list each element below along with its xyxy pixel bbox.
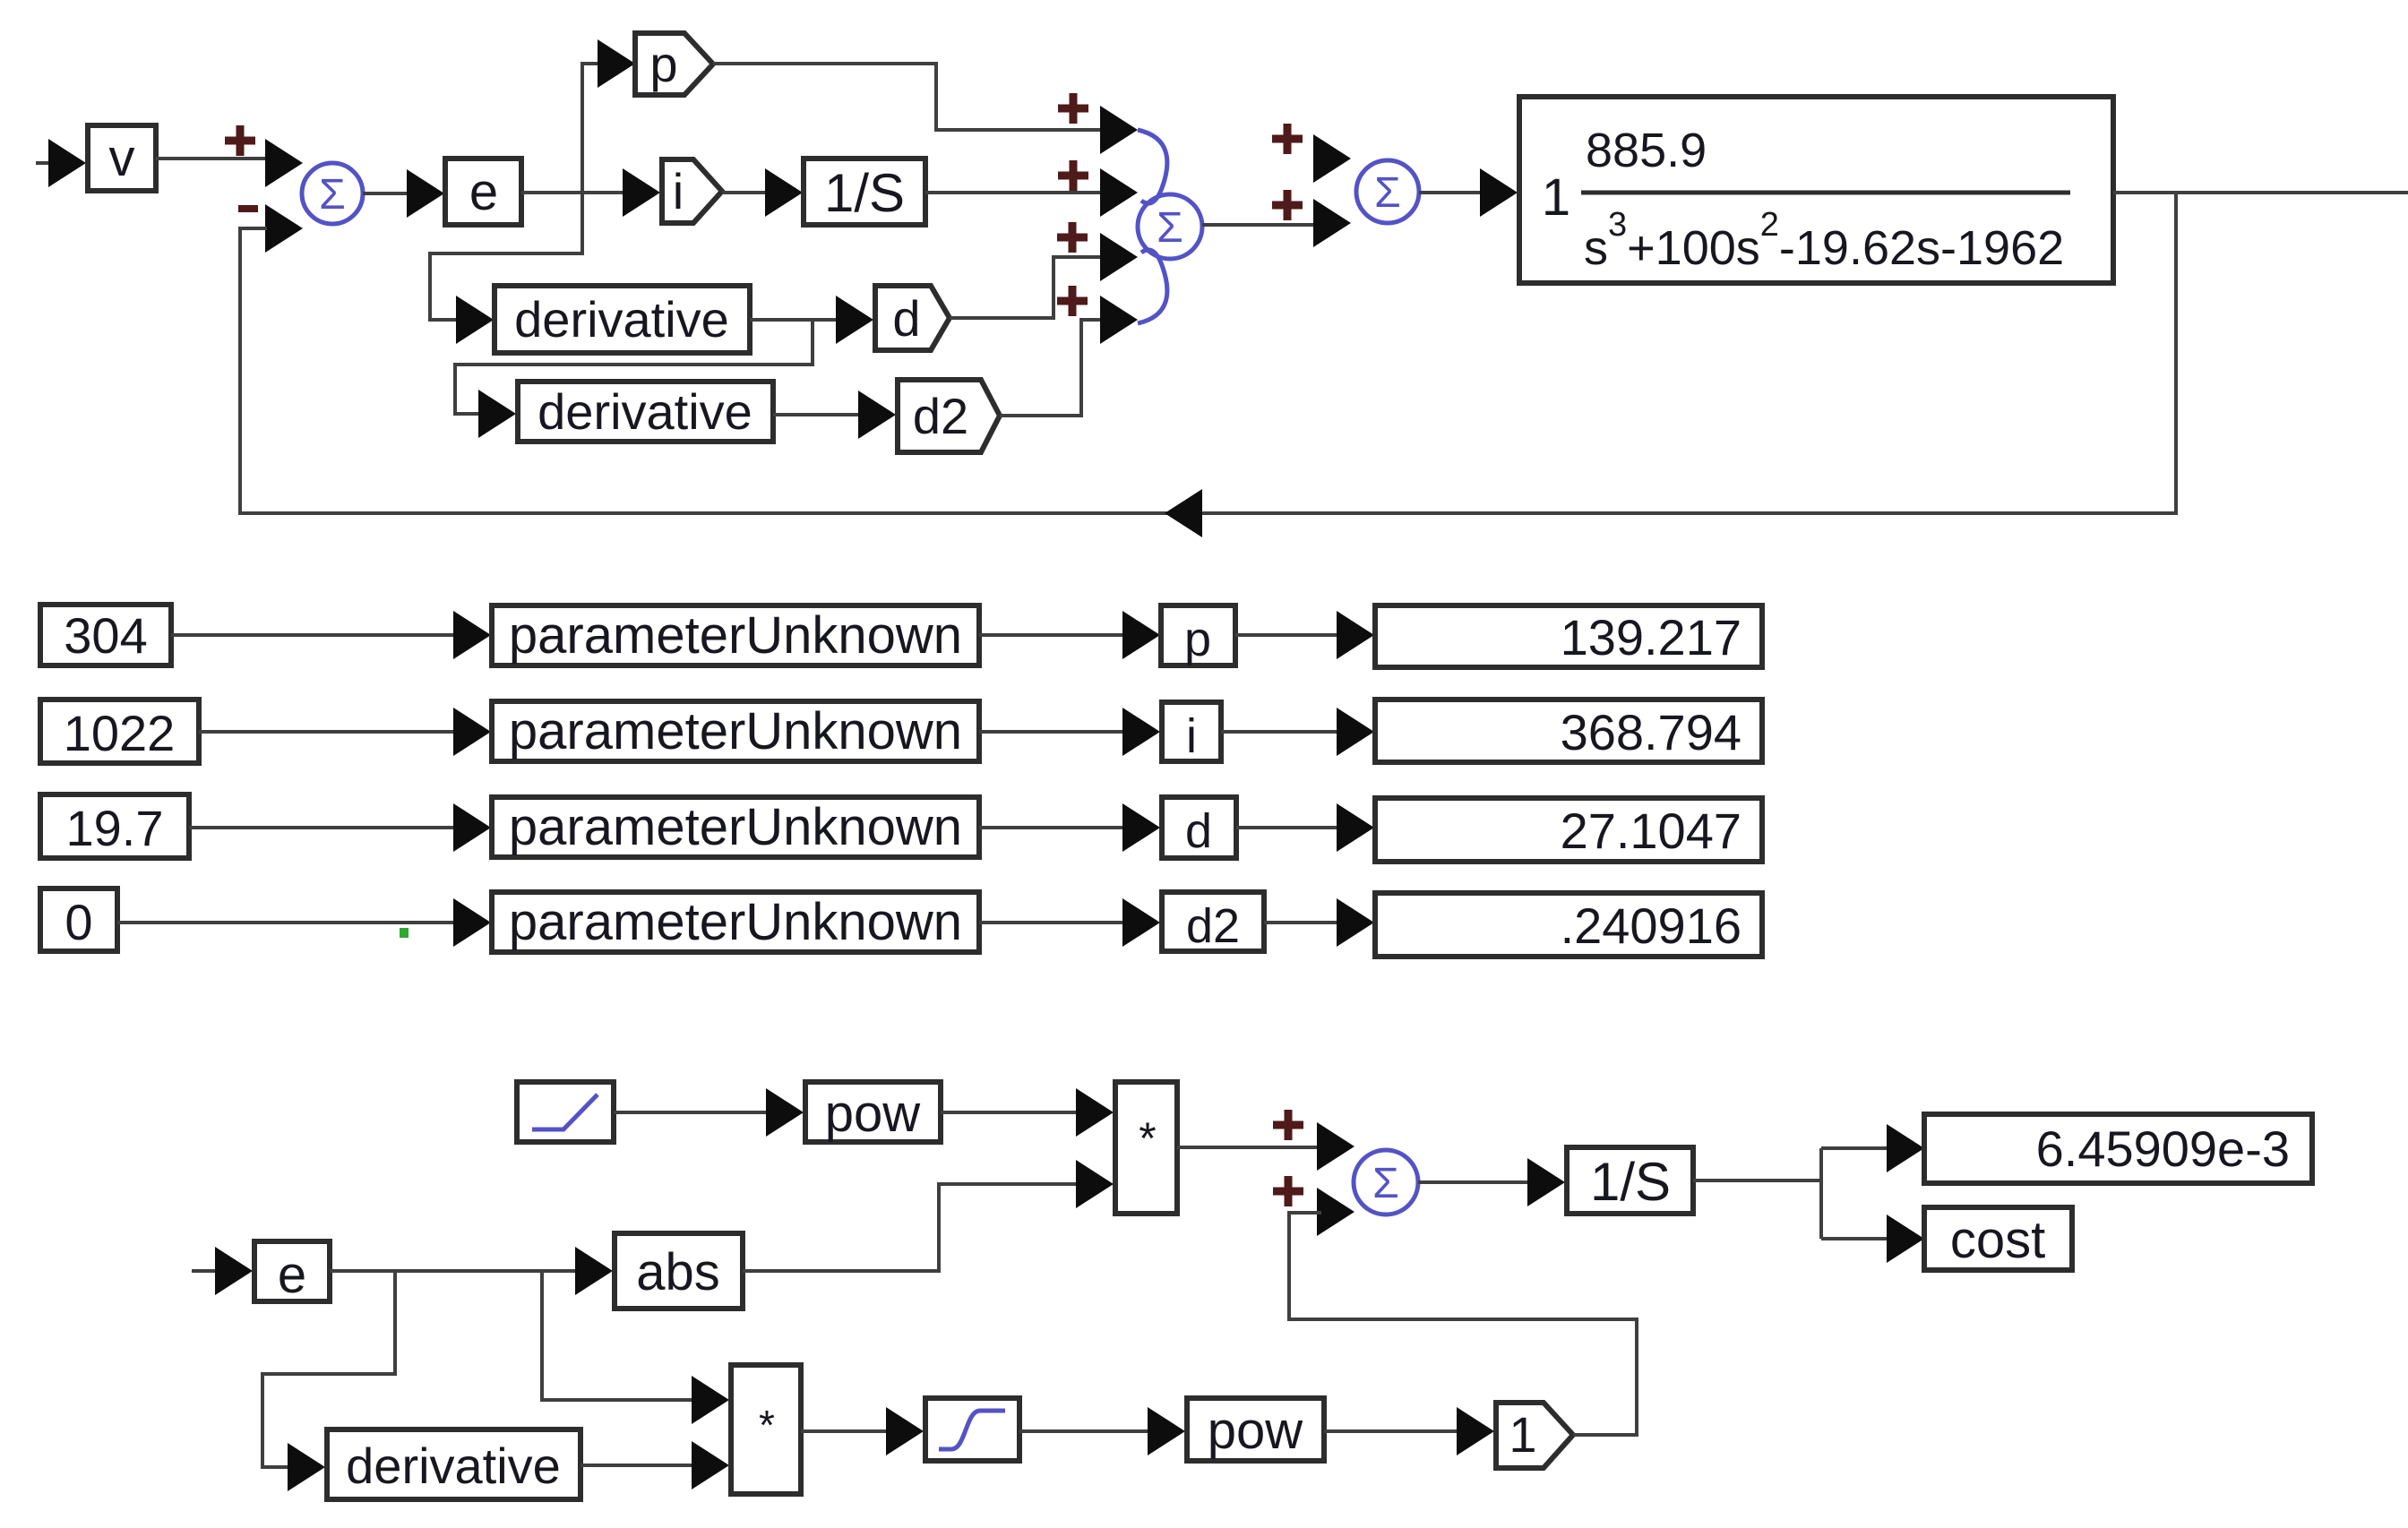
arrow big sum input 1 [1100, 106, 1138, 154]
wire: 19.7 to parameterUnknown [189, 826, 457, 829]
summation big sum brace [1138, 130, 1167, 323]
block parameterUnknown 1 [492, 605, 979, 665]
block pow (second) [1187, 1398, 1324, 1461]
arrow into d [836, 296, 873, 344]
block parameterUnknown 2 [492, 701, 979, 761]
svg-text:parameterUnknown: parameterUnknown [509, 702, 962, 760]
arrow into limiter [886, 1407, 924, 1455]
block derivative (second) [518, 382, 773, 442]
wire: i to display 368.794 [1221, 730, 1340, 734]
arrow into parameterUnknown 2 [453, 708, 491, 756]
block ramp source [517, 1082, 614, 1142]
wire: pointer 1 loop up to sum3 bottom input [1289, 1213, 1637, 1435]
svg-text:e: e [469, 163, 498, 221]
wire: 304 to parameterUnknown [171, 633, 457, 637]
arrow big sum input 2 [1100, 168, 1138, 217]
arrow sum3 bottom input [1317, 1188, 1354, 1236]
wire: feedback down and left [240, 193, 2176, 513]
block constant 1022 [40, 700, 199, 763]
block constant 304 [40, 605, 171, 665]
block constant 19.7 [40, 794, 189, 858]
wire: multiplier to sum3 [1177, 1146, 1320, 1149]
green mark on wire [400, 928, 408, 938]
wire: sum2 to transfer function [1419, 191, 1483, 194]
display 368.794 [1375, 700, 1762, 762]
arrow into 368.794 [1337, 708, 1374, 756]
svg-text:*: * [1139, 1113, 1156, 1163]
wire: branch down from e wire to derivative [430, 193, 582, 320]
svg-text:*: * [759, 1402, 775, 1448]
arrow into sum1 + input [265, 139, 303, 187]
wire: derivative to multiplier2 bottom [580, 1464, 695, 1467]
svg-text:19.7: 19.7 [66, 800, 164, 856]
wire: limiter to pow2 [1019, 1429, 1149, 1433]
svg-text:p: p [1184, 613, 1211, 666]
wire: e to abs [330, 1269, 577, 1273]
pointer d [875, 286, 950, 350]
block constant 0 [40, 888, 117, 951]
svg-text:i: i [1186, 709, 1197, 763]
arrow into 139.217 [1337, 611, 1374, 659]
pointer 1 [1496, 1403, 1573, 1468]
svg-text:368.794: 368.794 [1561, 704, 1741, 760]
block parameterUnknown 3 [492, 797, 979, 857]
block p (row1) [1161, 605, 1235, 666]
arrow into parameterUnknown 4 [453, 898, 491, 947]
svg-text:parameterUnknown: parameterUnknown [509, 893, 962, 951]
svg-text:Σ: Σ [319, 171, 346, 219]
svg-text:139.217: 139.217 [1561, 609, 1741, 665]
svg-text:304: 304 [64, 607, 147, 664]
arrow into e [407, 169, 444, 218]
svg-text:derivative: derivative [346, 1438, 561, 1494]
svg-text:Σ: Σ [1372, 1160, 1399, 1207]
wire: v to sum1 [156, 157, 265, 160]
arrow into d2 [858, 391, 896, 439]
wire: transfer function output to right edge [2113, 191, 2408, 194]
wire: d2 to display .240916 [1264, 921, 1340, 924]
pointer p [635, 33, 713, 95]
wire: 1/S output split [1693, 1148, 1890, 1239]
wire: derivative to d [750, 318, 839, 322]
svg-text:d2: d2 [1186, 899, 1240, 953]
arrow into multiplier bottom [1076, 1160, 1114, 1208]
svg-text:1: 1 [1509, 1406, 1536, 1463]
svg-text:e: e [278, 1246, 306, 1304]
wire: branch up to p [582, 64, 603, 193]
wire: d to display 27.1047 [1236, 826, 1340, 829]
svg-text:d2: d2 [913, 388, 968, 444]
svg-text:0: 0 [64, 894, 92, 950]
arrow into p [598, 39, 635, 88]
wire: input stub into v [36, 161, 50, 165]
svg-text:1/S: 1/S [1590, 1152, 1671, 1212]
svg-text:27.1047: 27.1047 [1561, 803, 1741, 859]
svg-text:parameterUnknown: parameterUnknown [509, 798, 962, 856]
arrow into 27.1047 [1337, 803, 1374, 852]
block derivative (first) [494, 286, 750, 353]
arrow into 6.45909e-3 [1887, 1124, 1924, 1172]
input arrow into v [48, 139, 86, 187]
wire: pow2 to pointer 1 [1324, 1429, 1460, 1433]
block multiplier (first) [1115, 1082, 1177, 1214]
arrow into i [623, 168, 660, 217]
svg-text:Σ: Σ [1374, 169, 1401, 217]
svg-text:cost: cost [1950, 1211, 2045, 1269]
minus sign at sum1 - input [238, 205, 258, 212]
summation big sum circle [1138, 194, 1202, 259]
wire: parameterUnknown4 to d2 [979, 921, 1126, 924]
svg-text:pow: pow [825, 1085, 922, 1143]
svg-text:Σ: Σ [1157, 204, 1183, 252]
summation sum2 [1356, 160, 1419, 223]
svg-text:abs: abs [636, 1243, 720, 1301]
plus at big sum input 1 [1058, 93, 1088, 124]
summation sum1 [302, 163, 363, 224]
arrow into derivative (bottom) [288, 1443, 325, 1491]
block e [445, 159, 521, 225]
plus at big sum input 4 [1057, 286, 1088, 316]
svg-text:p: p [649, 36, 677, 92]
wire: i to 1/S [722, 191, 769, 194]
arrow into pointer 1 [1457, 1407, 1494, 1455]
feedback left arrow [1165, 489, 1202, 537]
wire: branch derivative output to derivative2 [455, 320, 813, 414]
plus at sum2 upper input [1272, 124, 1303, 154]
svg-text:parameterUnknown: parameterUnknown [509, 606, 962, 665]
svg-text:d: d [1185, 804, 1212, 858]
block cost [1924, 1207, 2072, 1270]
block e (bottom) [254, 1241, 330, 1304]
block limiter (sigmoid) [925, 1398, 1019, 1461]
arrow into parameterUnknown 3 [453, 803, 491, 852]
svg-text:derivative: derivative [514, 291, 729, 348]
arrow into pow [766, 1088, 804, 1137]
arrow sum2 upper input (unconnected) [1313, 134, 1351, 183]
plus sign at sum1 + input [225, 125, 255, 156]
wire: ramp to pow [614, 1111, 768, 1114]
wire: parameterUnknown2 to i [979, 730, 1126, 734]
wire: multiplier2 to limiter [801, 1429, 890, 1433]
block pow (first) [805, 1082, 941, 1143]
block d2 (row4) [1162, 892, 1264, 953]
svg-text:.240916: .240916 [1561, 897, 1741, 954]
block v [88, 125, 156, 191]
wire: e stub [192, 1269, 217, 1273]
arrow into d2 box [1122, 898, 1160, 947]
arrow into multiplier2 top [692, 1376, 729, 1424]
block abs [615, 1233, 743, 1309]
arrow into i box [1122, 708, 1160, 756]
pointer d2 [898, 380, 1000, 452]
svg-text:derivative: derivative [537, 383, 752, 440]
wire: abs up to multiplier bottom input [743, 1184, 1079, 1271]
arrow into p box [1122, 611, 1160, 659]
block d (row3) [1162, 797, 1236, 858]
plus at big sum input 3 [1057, 222, 1088, 253]
arrow sum2 lower input [1313, 199, 1351, 247]
wire: e branch to multiplier2 top [542, 1271, 695, 1400]
block derivative (bottom) [327, 1429, 580, 1499]
svg-text:1022: 1022 [64, 705, 176, 761]
wire: d to big sum input 3 [950, 257, 1102, 318]
svg-text:1: 1 [1542, 168, 1570, 227]
arrow into d box [1122, 803, 1160, 852]
wire: 0 to parameterUnknown [117, 921, 457, 924]
wire: 1022 to parameterUnknown [199, 730, 457, 734]
svg-text:885.9: 885.9 [1586, 124, 1707, 177]
block 1/S (bottom) [1567, 1147, 1693, 1214]
wire: 1/S to big sum input 2 [925, 191, 1102, 194]
wire: parameterUnknown3 to d [979, 826, 1126, 829]
plus at sum3 top input [1273, 1110, 1303, 1140]
display 27.1047 [1375, 798, 1762, 862]
arrow into multiplier top [1076, 1088, 1114, 1137]
arrow into .240916 [1337, 898, 1374, 947]
svg-text:6.45909e-3: 6.45909e-3 [2036, 1120, 2290, 1177]
arrow into 1/S [765, 168, 803, 217]
arrow sum3 top input [1317, 1122, 1354, 1171]
arrow big sum input 3 [1100, 233, 1138, 281]
arrow into derivative [456, 296, 494, 344]
arrow into derivative2 [478, 390, 516, 438]
wire: derivative2 to d2 [773, 413, 862, 416]
arrow into 1/S (bottom) [1527, 1158, 1565, 1206]
wire: sum3 to 1/S (bottom) [1418, 1180, 1530, 1184]
wire: e branch to derivative (bottom) [262, 1271, 395, 1467]
svg-text:i: i [673, 163, 684, 219]
arrow into abs [575, 1247, 613, 1295]
wire: e output to i [521, 191, 626, 194]
arrow into sum1 - input [265, 204, 303, 253]
wire: sum1 to e [363, 192, 408, 195]
arrow into multiplier2 bottom [692, 1441, 729, 1489]
svg-text:pow: pow [1208, 1402, 1304, 1460]
wire: pow to multiplier [941, 1111, 1079, 1114]
summation sum3 [1354, 1150, 1418, 1215]
wire: d2 to big sum input 4 [1000, 320, 1102, 416]
block parameterUnknown 4 [492, 892, 979, 952]
arrow big sum input 4 [1100, 296, 1138, 344]
block i (row2) [1162, 702, 1221, 763]
plus at big sum input 2 [1058, 160, 1088, 191]
plus at sum3 bottom input [1273, 1176, 1303, 1206]
arrow into parameterUnknown 1 [453, 611, 491, 659]
svg-text:v: v [109, 129, 135, 187]
svg-text:1/S: 1/S [824, 163, 905, 223]
wire: big sum to sum2 [1202, 223, 1317, 227]
display 139.217 [1375, 605, 1762, 667]
wire: p output to big sum input 1 [713, 64, 1102, 130]
block transfer function 885.9/(s^3+100s^2-19.62s-1962) [1519, 97, 2113, 283]
svg-text:d: d [892, 290, 920, 347]
plus at sum2 lower input [1272, 190, 1303, 220]
arrow into pow2 [1148, 1407, 1185, 1455]
pointer i [662, 159, 722, 223]
arrow into cost [1887, 1215, 1924, 1263]
wire: p to display 139.217 [1235, 633, 1340, 637]
display 6.45909e-3 [1924, 1114, 2312, 1183]
arrow into transfer function [1480, 168, 1518, 217]
display .240916 [1375, 893, 1762, 957]
wire: parameterUnknown1 to p [979, 633, 1126, 637]
block 1/S [804, 159, 925, 225]
arrow into e [215, 1247, 253, 1295]
block multiplier (second) [731, 1365, 801, 1494]
